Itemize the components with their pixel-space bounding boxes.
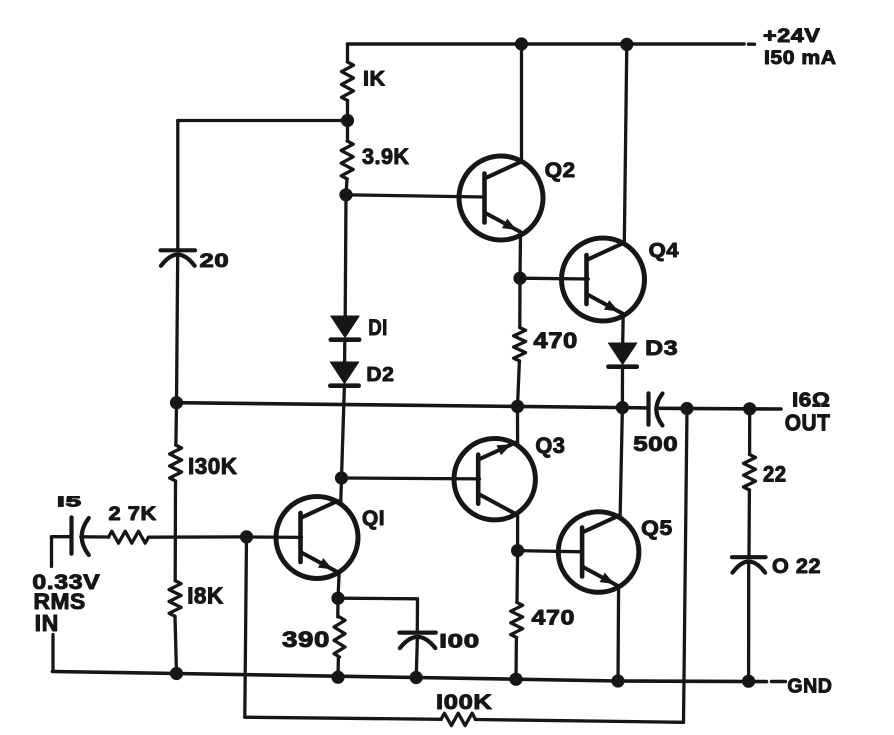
junction dot out-bus/D3 xyxy=(616,401,629,414)
capacitor 0.22 xyxy=(732,557,766,573)
svg-text:I50 mA: I50 mA xyxy=(764,47,837,69)
svg-text:I6Ω: I6Ω xyxy=(792,388,831,411)
resistor 1K xyxy=(342,62,354,101)
label 16ohm xyxy=(792,388,831,411)
wire 3.9K top lead xyxy=(346,121,349,142)
label D3 xyxy=(645,337,678,360)
wire 470l top lead xyxy=(515,551,519,603)
capacitor 500 left plate xyxy=(646,393,650,424)
wire C15 right lead xyxy=(81,535,109,539)
svg-text:20: 20 xyxy=(200,250,230,272)
label 130K xyxy=(188,453,238,479)
svg-text:Q4: Q4 xyxy=(649,240,680,262)
label 1K xyxy=(363,67,386,90)
junction dot Q4 base node xyxy=(513,272,526,285)
svg-text:I8K: I8K xyxy=(187,583,224,609)
wire Q3 collector xyxy=(516,406,519,446)
resistor 470 upper xyxy=(514,328,526,362)
diode D1 xyxy=(331,316,359,340)
wire 3.9K bottom lead xyxy=(346,179,347,195)
svg-text:IN: IN xyxy=(35,610,59,636)
label +24V xyxy=(763,26,821,47)
wire emitter node to C100 xyxy=(338,598,418,630)
wire D1-D2 xyxy=(343,340,346,362)
wire Q1 base xyxy=(247,535,302,539)
wire out bus left segment xyxy=(177,403,649,408)
wire 470l bottom lead xyxy=(514,638,518,680)
junction dot out-bus/22 xyxy=(743,402,756,415)
junction dot out-bus/feedback xyxy=(680,402,693,415)
junction dot node A (Q1 collector/Q3 base) xyxy=(335,471,348,484)
power rail +24V xyxy=(348,42,755,46)
wire Q4 emitter to D3 xyxy=(621,315,625,343)
svg-text:D2: D2 xyxy=(366,364,394,386)
label OUT xyxy=(785,410,831,436)
svg-text:3.9K: 3.9K xyxy=(362,144,410,169)
label 150 mA xyxy=(764,47,837,69)
capacitor 20 xyxy=(161,250,196,265)
capacitor 500 right plate xyxy=(656,394,662,426)
wire input lower stub xyxy=(51,635,55,672)
wire Q2 emitter to node xyxy=(518,235,522,278)
label Q2 xyxy=(545,158,576,182)
label 3.9K xyxy=(362,144,410,169)
transistor Q1 xyxy=(276,497,358,579)
junction dot GND/left column xyxy=(170,667,183,680)
label 18K xyxy=(187,583,224,609)
wire feedback bottom left xyxy=(245,717,441,719)
capacitor 15 straight plate xyxy=(69,517,73,553)
label 470 lower xyxy=(532,606,576,630)
wire C20 bottom lead xyxy=(177,255,178,403)
transistor Q2 xyxy=(459,156,543,240)
diode D2 xyxy=(330,362,358,386)
resistor 3.9K xyxy=(341,141,353,179)
label Q1 xyxy=(362,507,385,530)
label 2 7K xyxy=(109,503,158,525)
wire Q1 emitter xyxy=(338,572,339,599)
resistor 470 lower xyxy=(511,602,523,637)
resistor 2.7K xyxy=(109,531,149,543)
wire 470u bottom lead xyxy=(518,361,520,406)
junction dot out-bus left corner xyxy=(170,396,183,409)
junction dot Q5 base node xyxy=(511,544,524,557)
wire 18K to GND xyxy=(175,616,177,673)
label 470 upper xyxy=(533,328,578,353)
svg-text:QI: QI xyxy=(362,507,385,530)
label IN xyxy=(35,610,59,636)
label 0.33V xyxy=(32,571,100,594)
junction dot GND/470 lower xyxy=(509,673,522,686)
svg-text:DI: DI xyxy=(368,315,388,340)
junction dot GND/C100 xyxy=(410,671,423,684)
svg-text:500: 500 xyxy=(633,433,678,456)
wire to C20 column xyxy=(178,119,348,122)
svg-text:2 7K: 2 7K xyxy=(109,503,158,525)
wire Q5 emitter xyxy=(616,586,620,681)
wire C20 top lead xyxy=(176,121,179,248)
junction dot rail/Q2 collector xyxy=(515,37,528,50)
wire input upper stub xyxy=(50,537,53,567)
wire outbus to 130K xyxy=(174,403,178,445)
wire Q3 emitter xyxy=(516,513,519,551)
svg-text:I00K: I00K xyxy=(436,691,493,714)
label 100 xyxy=(439,631,480,653)
label 20 xyxy=(200,250,230,272)
ground dash xyxy=(772,680,786,683)
wire Q5 collector xyxy=(620,408,622,518)
resistor 18K xyxy=(169,581,181,617)
wire out bus right segment xyxy=(660,406,781,410)
wire feedback left vertical xyxy=(245,537,247,717)
junction dot rail/Q4 collector xyxy=(620,38,633,51)
wire Q4 base xyxy=(520,277,588,281)
resistor 390 xyxy=(334,617,345,657)
wire 2.7K to base node xyxy=(149,535,247,539)
wire Q3 base xyxy=(342,476,480,480)
ground bus GND xyxy=(53,672,767,682)
wire Q1 collector to node A xyxy=(339,478,343,505)
label GND xyxy=(787,674,832,697)
wire 1K bottom lead xyxy=(346,101,349,121)
wire Q5 base xyxy=(518,551,583,552)
svg-text:O 22: O 22 xyxy=(772,555,821,578)
wire 390 bottom lead xyxy=(336,657,340,677)
label 15 xyxy=(57,495,82,511)
svg-text:D3: D3 xyxy=(645,337,678,360)
transistor Q5 xyxy=(558,512,639,593)
svg-text:I5: I5 xyxy=(57,495,82,511)
wire node to D1 xyxy=(344,195,348,316)
label Q4 xyxy=(649,240,680,262)
label D1 xyxy=(368,315,388,340)
junction dot GND/C0.22 xyxy=(742,675,755,688)
junction dot node 3.9K/Q2 base xyxy=(339,188,352,201)
junction dot GND/390 xyxy=(331,671,344,684)
wire D3 to out bus xyxy=(621,367,624,408)
svg-text:IK: IK xyxy=(363,67,386,90)
label 390 xyxy=(282,627,330,652)
wire 390 top lead xyxy=(336,598,340,617)
svg-text:I00: I00 xyxy=(439,631,480,653)
resistor 100K xyxy=(441,713,476,725)
svg-text:470: 470 xyxy=(533,328,578,353)
resistor 130K xyxy=(170,445,182,481)
label D2 xyxy=(366,364,394,386)
capacitor 100 xyxy=(399,633,435,649)
svg-text:OUT: OUT xyxy=(785,410,831,436)
resistor 22 xyxy=(744,455,756,491)
wire Q4 collector to rail xyxy=(624,44,627,243)
label Q3 xyxy=(535,433,565,458)
wire 1K top lead xyxy=(346,44,349,62)
junction dot Q1 base node xyxy=(240,530,253,543)
wire 130K to 18K xyxy=(174,481,178,581)
label 0 22 xyxy=(772,555,821,578)
svg-text:GND: GND xyxy=(787,674,832,697)
label 22 xyxy=(763,462,787,487)
wire 22 top lead xyxy=(748,409,751,455)
wire C0.22 bottom lead xyxy=(747,562,750,681)
wire feedback bottom right xyxy=(476,720,684,723)
junction dot GND/Q5 emitter xyxy=(611,674,624,687)
diode D3 xyxy=(608,343,636,367)
svg-text:+24V: +24V xyxy=(763,26,821,47)
junction dot Q1 emitter node xyxy=(331,592,344,605)
svg-text:Q3: Q3 xyxy=(535,433,565,458)
capacitor 15 curved plate xyxy=(82,518,89,555)
wire 22 to C0.22 xyxy=(747,490,751,555)
wire Q2 collector to rail xyxy=(520,44,523,161)
label Q5 xyxy=(641,516,673,540)
wire 470u top lead xyxy=(518,278,522,327)
svg-text:390: 390 xyxy=(282,627,330,652)
transistor Q4 xyxy=(562,238,645,321)
svg-text:I30K: I30K xyxy=(188,453,238,479)
label 500 xyxy=(633,433,678,456)
wire D2 to node A xyxy=(342,386,345,478)
wire C15 left lead xyxy=(52,535,70,538)
svg-text:22: 22 xyxy=(763,462,787,487)
wire C100 bottom lead xyxy=(416,638,417,678)
wire feedback right vertical xyxy=(684,409,688,723)
transistor Q3 xyxy=(454,439,535,520)
junction dot node 1K/3.9K xyxy=(341,114,354,127)
label RMS xyxy=(34,589,86,614)
wire Q2 base xyxy=(346,195,485,197)
svg-text:Q2: Q2 xyxy=(545,158,576,182)
junction dot out-bus/470-Q3 xyxy=(511,400,524,413)
svg-text:Q5: Q5 xyxy=(641,516,673,540)
svg-text:470: 470 xyxy=(532,606,576,630)
label 100K xyxy=(436,691,493,714)
